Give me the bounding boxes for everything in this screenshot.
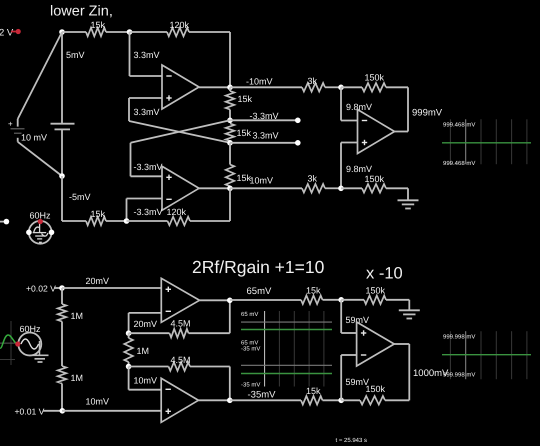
wire op2 output [199, 187, 230, 189]
svg-text:999.468 mV: 999.468 mV [443, 121, 476, 128]
wire stub from N5 to post [230, 142, 298, 144]
resistor R9 150k feedback op3 [362, 73, 386, 92]
wire into op5 minus [129, 389, 162, 391]
scope S3 left edge partial [0, 321, 19, 365]
wire J2 to R11 [341, 187, 362, 189]
node N1 top input node [59, 29, 65, 35]
resistor R2 120k feedback [167, 20, 189, 36]
wire J1 to R9 [341, 86, 362, 88]
node N2 op1 inverting input node [127, 29, 133, 35]
wire R9 to corner [386, 86, 408, 88]
scope S1 top right [442, 119, 531, 166]
svg-text:3.3mV: 3.3mV [134, 107, 160, 117]
svg-text:2 V: 2 V [0, 27, 14, 37]
wire op6 output [394, 343, 409, 345]
wire R10 to J2 [325, 187, 341, 189]
svg-text:10mV: 10mV [134, 376, 158, 386]
wire N8 to R16 [129, 366, 169, 368]
node N7 op4 feedback node [126, 330, 132, 336]
svg-text:15k: 15k [237, 128, 252, 138]
svg-text:x -10: x -10 [366, 264, 403, 282]
dc source V1 plates [11, 129, 25, 133]
scope S2 middle dual [241, 311, 332, 388]
wire battery B1 top lead [61, 32, 63, 123]
svg-text:+0.02 V: +0.02 V [26, 284, 56, 293]
wire J4 to R18 [341, 299, 364, 301]
wire corner down to op3 output [407, 87, 409, 131]
wire R18 to ground corner [386, 299, 409, 301]
svg-text:150k: 150k [365, 174, 385, 184]
resistor R10 3k bottom [302, 174, 325, 193]
wire node down left column [61, 176, 63, 221]
red post dot top of AC1 [38, 219, 43, 224]
svg-text:4.5M: 4.5M [171, 355, 191, 365]
svg-text:3.3mV: 3.3mV [253, 131, 279, 141]
wire bottom-left corner to R6 [62, 220, 86, 222]
wire op1 plus branch down [128, 98, 130, 121]
svg-text:lower Zin,: lower Zin, [50, 3, 113, 19]
wire N9 to R17 [230, 299, 301, 301]
wire corner down to op5 output [229, 367, 231, 401]
resistor R19 15k to op6 minus [301, 386, 323, 404]
wire corner up to op6 output [408, 344, 410, 400]
svg-text:20mV: 20mV [134, 319, 158, 329]
wire J3 to R7 [127, 220, 168, 222]
node N6 op2 output [227, 186, 233, 192]
wire corner up to op2 output [229, 188, 231, 221]
svg-text:59mV: 59mV [346, 377, 370, 387]
wire R6 to node J3 [106, 220, 127, 222]
resistor R14 4.5M feedback op4 [170, 319, 191, 338]
wire R20 to corner [385, 399, 409, 401]
node top rail bottom circuit [59, 285, 65, 291]
node J5 op5 output junction [227, 398, 233, 404]
svg-text:4.5M: 4.5M [171, 319, 191, 329]
resistor R5 15k lower divider [226, 143, 252, 189]
svg-text:20mV: 20mV [86, 276, 110, 286]
wire crossover diagonal B [131, 120, 231, 143]
wire N7 to R14 [129, 332, 170, 334]
wire R11 to ground [386, 187, 408, 189]
red post dot left of AC2 [15, 341, 20, 346]
resistor R18 150k to ground [364, 286, 386, 304]
wire J1 down to op3 minus [340, 87, 342, 120]
wire V1 bottom lead [17, 138, 19, 142]
wire J6 to R20 [341, 399, 360, 401]
resistor R4 15k gain resistor [226, 124, 252, 143]
node N8 op5 feedback node [126, 364, 132, 370]
wire op3 output [395, 131, 409, 133]
wire into op1 minus [130, 75, 163, 77]
svg-text:5mV: 5mV [66, 50, 85, 60]
resistor R8 3k top [302, 76, 325, 91]
node J6 op6 inverting node [338, 398, 344, 404]
svg-text:10 mV: 10 mV [21, 133, 47, 143]
ground G1 top circuit [398, 188, 419, 208]
wire top rail left [62, 31, 86, 33]
resistor R15 1M gain resistor [124, 333, 149, 366]
op-amp U1 [162, 65, 199, 109]
ac source AC1 60Hz symbol [29, 221, 52, 244]
post dot right of AC1 [49, 230, 55, 236]
wire R14 to corner [189, 332, 230, 334]
svg-text:-10mV: -10mV [246, 77, 273, 87]
op-amp U5 [161, 378, 198, 422]
svg-text:1M: 1M [71, 311, 84, 321]
resistor R6 15k input bottom [86, 209, 106, 225]
post dot at end of N4 stub [295, 118, 301, 124]
op-amp U3 [358, 110, 395, 154]
svg-text:-5mV: -5mV [69, 192, 91, 202]
svg-text:15k: 15k [91, 20, 106, 30]
svg-text:-35mV: -35mV [248, 389, 276, 399]
node bottom rail [60, 408, 66, 414]
wire V1 top lead [17, 119, 19, 127]
svg-text:2Rf/Rgain +1=10: 2Rf/Rgain +1=10 [192, 258, 324, 277]
wire R19 to J6 [323, 399, 342, 401]
resistor R11 150k to ground [362, 174, 386, 192]
node N3 op1 output [227, 85, 233, 91]
svg-text:120k: 120k [167, 207, 187, 217]
wire op4 output [200, 299, 230, 301]
wire R8 to J1 [325, 86, 341, 88]
wire into op2 plus input [131, 175, 163, 177]
wire op4 minus input [129, 312, 162, 314]
wire R2 to feedback corner [189, 31, 230, 33]
scope S4 bottom right [442, 331, 531, 379]
wire R16 to corner [190, 366, 230, 368]
wire bottom rail to op5 plus [62, 410, 161, 412]
resistor R3 15k upper divider [226, 87, 253, 120]
wire between 1M resistors [61, 322, 63, 367]
resistor R12 1M upper divider [58, 288, 83, 322]
wire crossover diagonal A [129, 121, 230, 143]
wire into op3 plus [341, 142, 358, 144]
svg-text:+0.01 V: +0.01 V [15, 407, 45, 416]
svg-text:150k: 150k [366, 286, 386, 296]
wire N8 down [128, 367, 130, 390]
svg-text:999.468 mV: 999.468 mV [443, 160, 476, 167]
resistor R13 1M lower divider [58, 366, 83, 384]
wire into op6 plus [341, 332, 356, 334]
wire into op6 minus [341, 354, 356, 356]
wire stub from N4 to post [230, 119, 298, 121]
svg-text:120k: 120k [170, 20, 190, 30]
wire feedback corner down to op1 output [229, 32, 231, 87]
ground G3 at AC2 [30, 341, 49, 362]
dc source V1 left branch upper diagonal [18, 32, 62, 119]
battery B1 center source plates [51, 124, 75, 130]
wire top rail to op4 plus [62, 287, 161, 289]
node J4 op6 noninverting node [338, 297, 344, 303]
post dot left edge stub [4, 219, 10, 225]
svg-text:1M: 1M [137, 346, 150, 356]
rail label +0.02 V [26, 284, 62, 293]
svg-text:1M: 1M [71, 373, 84, 383]
svg-text:+: + [8, 120, 13, 129]
svg-text:9.8mV: 9.8mV [346, 164, 372, 174]
node J2 op3 noninverting node [338, 186, 344, 192]
wire 1M to bottom rail [61, 384, 63, 411]
wire op2out to R10 [230, 187, 302, 189]
wire J4 down to op6 plus [340, 300, 342, 333]
wire op4 minus branch down [128, 313, 130, 333]
svg-text:15k: 15k [306, 286, 321, 296]
wire op1out to R8 [230, 86, 302, 88]
node N9 op4 output junction [227, 298, 233, 304]
svg-text:3k: 3k [308, 174, 318, 184]
resistor R17 15k to op6 plus [301, 286, 323, 304]
wire op2 minus input [127, 198, 163, 200]
wire J5 to R19 [230, 399, 301, 401]
wire into op3 minus [341, 120, 358, 122]
wire stub at left edge [0, 221, 6, 223]
resistor R16 4.5M feedback op5 [169, 355, 191, 370]
svg-text:-3.3mV: -3.3mV [134, 207, 163, 217]
svg-text:15k: 15k [238, 94, 253, 104]
node J3 op2 inverting node [124, 218, 130, 224]
node J1 op3 inverting node [338, 85, 344, 91]
wire op3 plus branch down to J2 [340, 143, 342, 189]
svg-text:3k: 3k [308, 76, 318, 86]
svg-text:65mV: 65mV [247, 286, 272, 296]
wire N2 down to op1 minus input [129, 32, 131, 76]
post dot left of AC1 [26, 230, 32, 236]
wire N2 to R2 [130, 31, 168, 33]
svg-text:150k: 150k [365, 73, 385, 83]
resistor R20 150k feedback op6 [360, 384, 385, 404]
svg-text:-3.3mV: -3.3mV [134, 162, 163, 172]
resistor R7 120k feedback bottom [167, 207, 191, 225]
resistor R1 15k input [86, 20, 106, 36]
svg-text:t = 25.943 s: t = 25.943 s [336, 437, 368, 444]
svg-text:3.3mV: 3.3mV [134, 50, 160, 60]
svg-text:10mV: 10mV [86, 397, 110, 407]
wire corner up to op4 output [229, 300, 231, 333]
wire battery B1 bottom lead [61, 129, 63, 176]
svg-text:10mV: 10mV [250, 176, 274, 186]
svg-text:15k: 15k [91, 209, 106, 219]
wire op1 output [199, 86, 230, 88]
node N5 lower gain node [227, 140, 233, 146]
op-amp U2 [162, 166, 199, 210]
svg-text:65 mV: 65 mV [241, 339, 259, 346]
wire op5 output [198, 399, 229, 401]
wire diagonal B down to op2 plus [130, 143, 132, 177]
op-amp U6 [357, 322, 395, 366]
svg-text:999.998 mV: 999.998 mV [443, 333, 476, 340]
svg-text:-35 mV: -35 mV [241, 345, 261, 352]
wire J6 up to op6 minus [340, 355, 342, 400]
svg-text:999mV: 999mV [412, 107, 442, 117]
rail label +0.01 V [15, 407, 63, 416]
svg-text:65 mV: 65 mV [241, 311, 259, 318]
svg-text:999.998 mV: 999.998 mV [443, 371, 476, 378]
ac source AC2 60Hz bottom [18, 333, 41, 356]
op-amp U4 [161, 278, 199, 322]
dc source V1 lower diagonal to node [18, 142, 62, 176]
node lower-left junction [59, 173, 65, 179]
wire R17 to J4 [323, 299, 342, 301]
wire R1 to node N2 [106, 31, 130, 33]
wire op1 plus input [129, 97, 162, 99]
svg-text:15k: 15k [306, 386, 321, 396]
svg-text:60Hz: 60Hz [20, 324, 41, 334]
post dot at end of N5 stub [295, 140, 301, 146]
wire R7 to corner [190, 220, 230, 222]
node N4 upper gain node [227, 118, 233, 124]
voltage rail label 2V (cut off at edge) [0, 27, 21, 37]
svg-text:-35 mV: -35 mV [241, 381, 261, 388]
wire op2 minus branch down to J3 [126, 199, 128, 222]
ground G2 bottom circuit [399, 300, 420, 319]
